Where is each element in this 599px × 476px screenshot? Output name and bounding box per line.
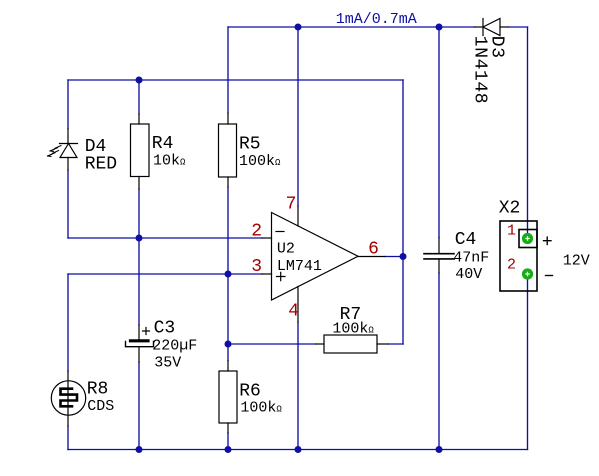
minus sign X2 [546,275,553,277]
wire pin3 horizontal y=274 [68,273,262,275]
svg-text:1N4148: 1N4148 [470,36,490,104]
svg-text:100kΩ: 100kΩ [332,321,374,338]
wire X2 pin 2 to ground [527,280,529,450]
node junction top rail x=298 [295,24,302,31]
node junction top rail x=439 [436,24,443,31]
svg-text:6: 6 [368,239,379,259]
node junction ground x=439 [436,446,443,453]
resistor R6 [219,361,237,434]
node junction R4 top [136,77,143,84]
wire output net vertical x=403 [402,80,404,344]
svg-text:2: 2 [507,257,516,274]
node junction pin2 x=139 [136,235,143,242]
svg-text:X2: X2 [499,198,521,218]
wire V+ down to C4 top [438,27,440,238]
svg-text:2: 2 [251,222,262,242]
op-amp minus input sign [276,231,284,233]
plus sign X2 [544,237,552,244]
node junction ground x=298 [295,446,302,453]
svg-text:220µF: 220µF [152,338,197,355]
resistor R5 [219,113,237,187]
svg-text:R5: R5 [239,134,261,154]
wire pin3 corner down to R8 [67,274,69,371]
wire R7 right lead to x=403 [388,343,403,345]
wire op-amp pin 4 to ground [297,322,299,450]
photoresistor R8 [51,371,85,426]
wire pin2 node down to C3 top [138,238,140,325]
wire C4 bottom to ground [438,273,440,450]
svg-text:35V: 35V [154,354,181,371]
wire op-amp output to x=403 [385,256,403,258]
wire pin3 node to R7 left [228,343,316,345]
X2 pin 1 green pad [522,233,533,244]
wire C3 bottom to ground [138,362,140,450]
wire R4 bottom to pin2 wire [138,189,140,238]
wire R8 bottom to ground [67,426,69,450]
svg-text:47nF: 47nF [453,249,489,266]
wire output net down to D4 anode [67,80,69,129]
svg-text:U2: U2 [277,240,295,257]
wire D4 cathode down to pin2 wire [67,170,69,238]
node junction ground x=139 [136,446,143,453]
svg-text:C4: C4 [455,230,477,250]
svg-text:1: 1 [507,222,516,239]
resistor R7 [316,335,388,353]
LED D4 [60,129,78,171]
svg-text:12V: 12V [563,253,590,270]
svg-text:4: 4 [288,301,299,321]
svg-text:100kΩ: 100kΩ [239,153,281,170]
node junction output x=403 [400,253,407,260]
wire top rail right of D3 [508,26,528,28]
svg-text:10kΩ: 10kΩ [153,152,186,169]
svg-text:1mA/0.7mA: 1mA/0.7mA [336,11,417,28]
wire R6 bottom to ground [227,433,229,450]
capacitor C3 [126,325,154,362]
op-amp U2 [262,206,385,322]
node junction R7 left branch [225,341,232,348]
wire ground rail horizontal [68,449,528,451]
connector X2 [500,221,537,291]
svg-text:LM741: LM741 [277,258,322,275]
svg-text:R8: R8 [87,380,109,400]
svg-text:7: 7 [286,195,297,215]
wire output net horizontal y=80 [68,79,403,81]
op-amp plus input sign [277,272,286,280]
wire V+ down to op-amp pin 7 [297,27,299,206]
diode D3 [475,19,509,36]
wire pin2 horizontal y=238 [68,237,262,239]
wire top rail horizontal [228,26,475,28]
wire output net down to R4 top [138,80,140,114]
node junction ground x=228 [225,446,232,453]
svg-text:CDS: CDS [87,398,114,415]
LED D4 light arrows [48,146,62,157]
svg-text:40V: 40V [455,266,482,283]
resistor R4 [131,114,150,189]
wire V+ down to X2 pin 1 [527,27,529,234]
svg-text:C3: C3 [154,319,176,339]
svg-text:100kΩ: 100kΩ [240,400,282,417]
svg-text:3: 3 [251,257,262,277]
wire V+ down to R5 top [227,27,229,113]
wire R5 bottom down through pin3 to R6 top [227,187,229,361]
X2 pin 2 green pad [522,268,533,279]
node junction pin3 x=228 [225,271,232,278]
svg-text:RED: RED [85,154,117,174]
capacitor C4 [424,238,454,274]
svg-text:R6: R6 [239,381,261,401]
svg-text:R4: R4 [152,134,174,154]
